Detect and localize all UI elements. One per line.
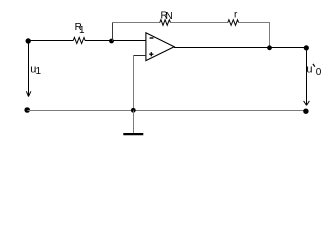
node F: ground junction on bottom rail	[131, 108, 136, 113]
node C: junction of output wire and feedback branch	[267, 45, 272, 50]
node E: bottom terminal (u1 -)	[24, 107, 30, 113]
svg-text:u: u	[306, 63, 312, 75]
wire: feedback riser from junction B up to top rail	[112, 22, 114, 41]
voltage arrow u1	[26, 44, 31, 97]
resistor r	[228, 20, 239, 26]
wire: top feedback rail between RN and r	[171, 22, 228, 24]
wire: junction B to op-amp inverting input	[112, 40, 147, 42]
wire: op-amp output to node C	[174, 47, 270, 49]
wire: feedback riser down to output node C	[269, 22, 271, 48]
resistor RN	[160, 20, 171, 26]
op-amp U1	[146, 33, 174, 61]
wire: input terminal to resistor R1	[28, 40, 73, 42]
node A: input terminal (u1 +)	[26, 38, 31, 43]
node B: junction of input wire and feedback branch	[109, 39, 114, 44]
ground	[123, 111, 143, 135]
wire: top feedback rail left segment to resistor RN	[112, 22, 160, 24]
wire: resistor R1 to junction B	[85, 40, 112, 42]
svg-text:1: 1	[36, 66, 42, 77]
voltage arrow u'0	[304, 51, 310, 106]
svg-text:0: 0	[316, 67, 322, 78]
wire: bottom rail	[27, 110, 306, 112]
wire: top feedback rail right segment from r to output riser	[239, 22, 270, 24]
wire: node C to output terminal D	[270, 47, 307, 49]
wire: non-inverting input down to ground rail	[133, 55, 135, 111]
resistor R1	[73, 37, 85, 43]
svg-text:N: N	[166, 11, 173, 22]
node G: bottom terminal (u'0 -)	[303, 109, 308, 114]
svg-text:1: 1	[79, 25, 85, 36]
wire: op-amp non-inverting input stub	[133, 55, 146, 57]
node D: output terminal (u'0 +)	[304, 45, 309, 50]
